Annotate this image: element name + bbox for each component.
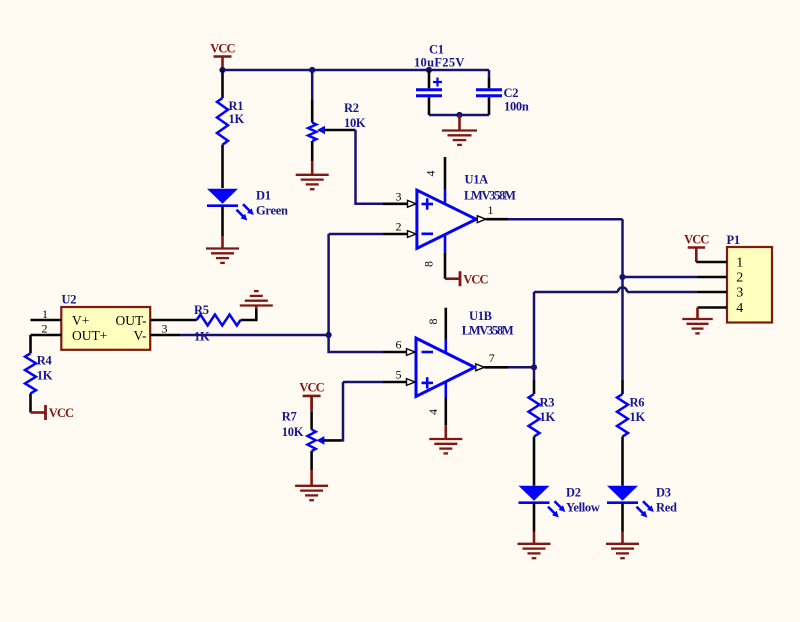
svg-text:4: 4 <box>736 301 743 316</box>
svg-text:D3: D3 <box>656 486 671 500</box>
svg-text:1K: 1K <box>37 369 53 383</box>
svg-text:R7: R7 <box>282 410 297 424</box>
svg-text:V-: V- <box>133 328 147 343</box>
svg-text:R6: R6 <box>630 396 645 410</box>
svg-text:D2: D2 <box>566 486 581 500</box>
svg-text:U2: U2 <box>62 293 77 307</box>
svg-text:LMV358M: LMV358M <box>462 324 514 338</box>
svg-text:VCC: VCC <box>299 381 324 395</box>
svg-text:5: 5 <box>396 368 402 382</box>
svg-text:4: 4 <box>424 171 438 177</box>
svg-text:Yellow: Yellow <box>566 501 600 515</box>
svg-text:OUT-: OUT- <box>115 313 147 328</box>
svg-text:8: 8 <box>426 319 440 325</box>
svg-text:D1: D1 <box>256 189 271 203</box>
svg-text:VCC: VCC <box>210 41 235 55</box>
svg-text:OUT+: OUT+ <box>72 328 107 343</box>
svg-text:P1: P1 <box>727 233 740 247</box>
svg-text:6: 6 <box>396 338 402 352</box>
svg-text:4: 4 <box>426 409 440 415</box>
svg-text:U1A: U1A <box>465 173 489 187</box>
svg-text:C1: C1 <box>429 43 444 57</box>
svg-text:Green: Green <box>256 204 288 218</box>
svg-text:1K: 1K <box>194 330 210 344</box>
svg-text:2: 2 <box>42 322 48 336</box>
svg-text:2: 2 <box>396 220 402 234</box>
svg-text:1K: 1K <box>630 410 646 424</box>
svg-text:3: 3 <box>736 286 743 301</box>
svg-text:2: 2 <box>736 271 743 286</box>
svg-text:R4: R4 <box>37 354 53 368</box>
svg-text:LMV358M: LMV358M <box>464 189 516 203</box>
svg-text:R3: R3 <box>540 396 555 410</box>
svg-text:7: 7 <box>489 351 495 365</box>
svg-text:VCC: VCC <box>463 272 488 286</box>
svg-text:Red: Red <box>656 501 677 515</box>
svg-text:V+: V+ <box>72 313 89 328</box>
svg-text:1K: 1K <box>229 112 245 126</box>
svg-text:3: 3 <box>162 322 168 336</box>
svg-text:10uF25V: 10uF25V <box>414 56 465 70</box>
svg-text:100n: 100n <box>504 100 529 114</box>
svg-text:R5: R5 <box>194 303 209 317</box>
svg-text:C2: C2 <box>504 86 519 100</box>
svg-text:10K: 10K <box>282 425 304 439</box>
svg-text:1K: 1K <box>540 410 556 424</box>
svg-text:R1: R1 <box>229 99 244 113</box>
svg-text:VCC: VCC <box>49 406 74 420</box>
svg-text:3: 3 <box>396 189 402 203</box>
svg-text:U1B: U1B <box>469 309 492 323</box>
svg-text:R2: R2 <box>344 101 359 115</box>
svg-text:1: 1 <box>488 203 494 217</box>
svg-text:1: 1 <box>736 256 743 271</box>
svg-text:VCC: VCC <box>684 233 709 247</box>
svg-text:1: 1 <box>42 307 48 321</box>
svg-text:8: 8 <box>422 261 436 267</box>
svg-text:10K: 10K <box>344 116 366 130</box>
